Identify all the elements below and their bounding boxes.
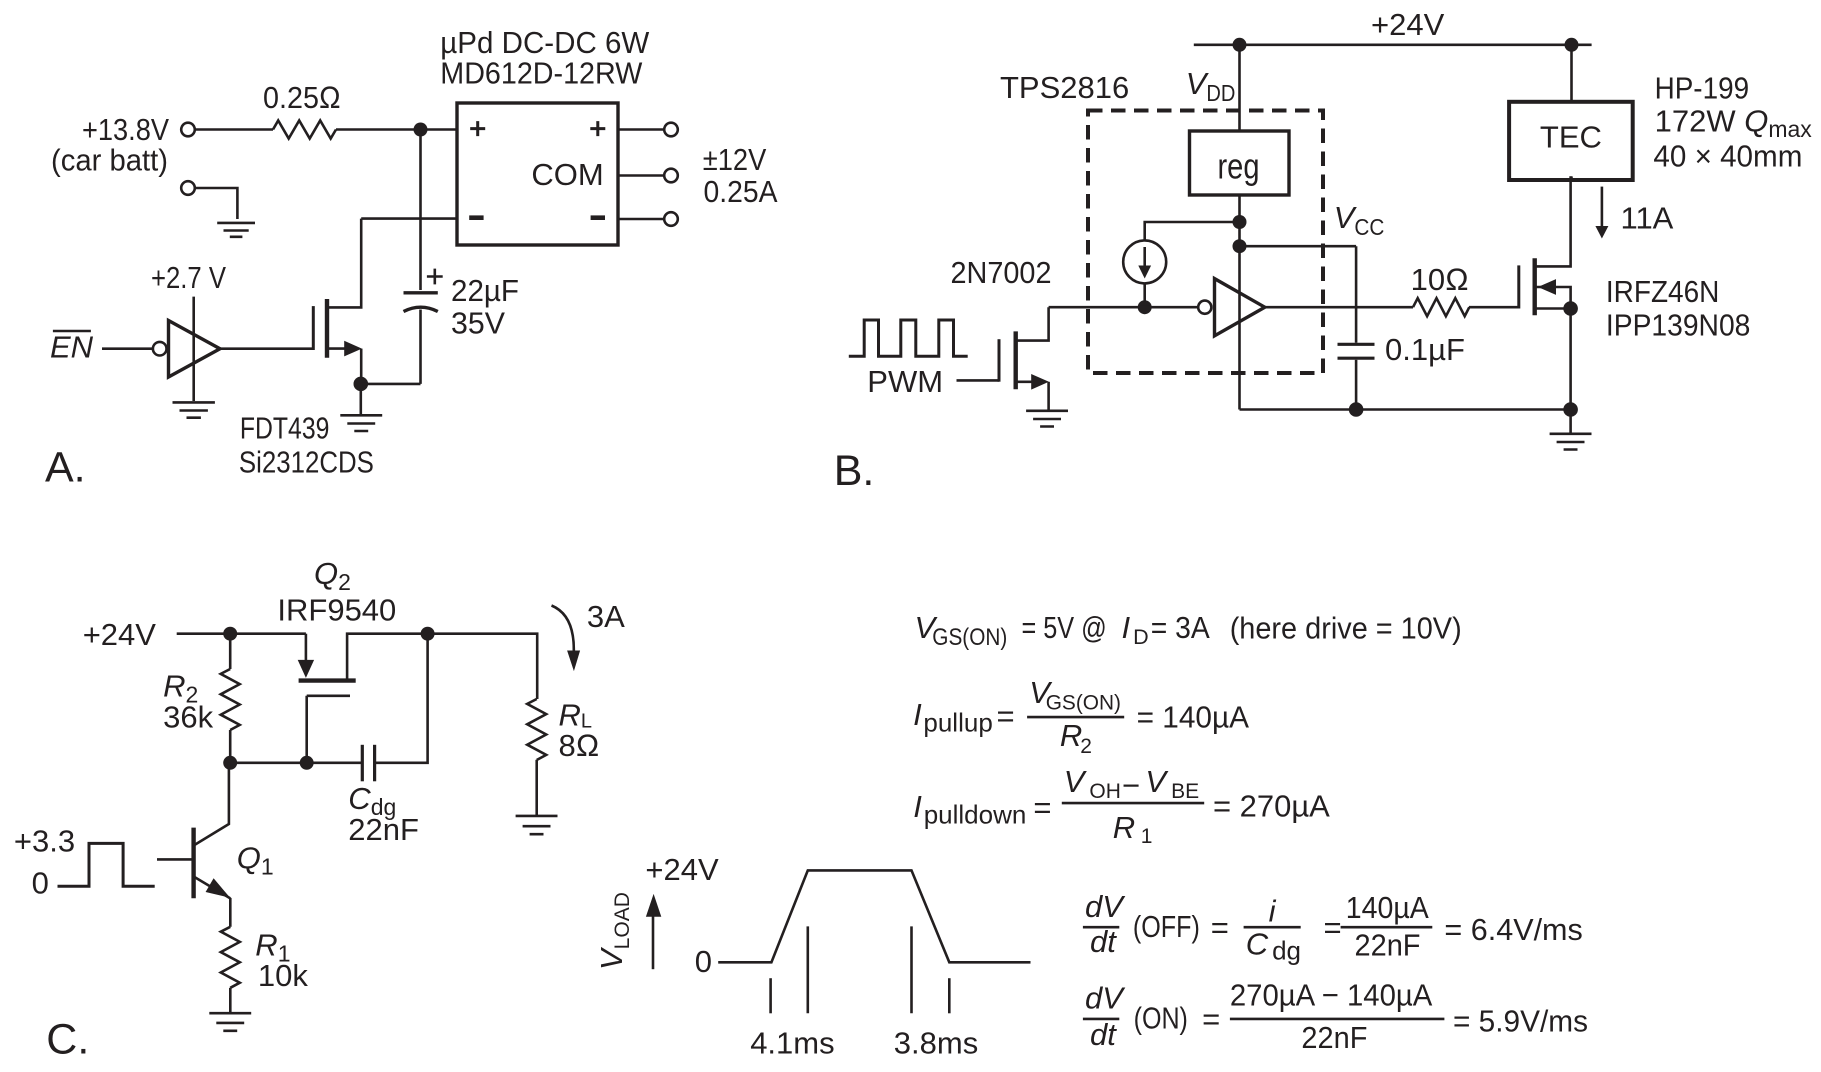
svg-text:3.8ms: 3.8ms	[894, 1025, 978, 1060]
svg-text:36k: 36k	[163, 700, 213, 735]
arrow 11A	[1601, 187, 1604, 228]
node input	[1138, 300, 1152, 314]
node output top	[421, 627, 435, 641]
resistor R1	[221, 927, 240, 988]
reg box	[1190, 131, 1290, 195]
wire VDD down to reg	[1238, 45, 1241, 132]
svg-text:11A: 11A	[1621, 201, 1674, 236]
wire bottom rail	[1240, 408, 1571, 411]
capacitor Cdg	[361, 745, 364, 782]
svg-text:B.: B.	[834, 447, 875, 495]
svg-text:IPP139N08: IPP139N08	[1606, 307, 1751, 342]
node gate	[300, 756, 314, 770]
wire emitter to R1	[229, 898, 232, 927]
2N7002 source to ground	[1047, 382, 1050, 411]
capacitor C 22uF plates	[404, 291, 438, 294]
svg-text:+24V: +24V	[645, 852, 719, 887]
wire PWM to gate	[957, 379, 1000, 382]
resistor R2	[229, 634, 232, 669]
svg-text:0.1µF: 0.1µF	[1385, 332, 1465, 367]
tick 4	[948, 978, 951, 1013]
Q1 collector	[194, 763, 229, 846]
svg-text:140µA: 140µA	[1346, 890, 1429, 925]
svg-text:0.25A: 0.25A	[704, 174, 778, 209]
node bottom cap	[1349, 402, 1364, 417]
svg-text:22µF: 22µF	[451, 273, 519, 308]
transistor IRFZ46N gate bar	[1517, 265, 1520, 308]
terminal out top	[664, 123, 678, 137]
terminal car batt minus	[181, 181, 195, 195]
wire rail to TEC	[1570, 45, 1573, 102]
svg-text:10Ω: 10Ω	[1411, 262, 1469, 297]
node bottom right	[1563, 402, 1578, 417]
svg-text:=: =	[1202, 1002, 1220, 1037]
wire output pin bottom	[618, 218, 664, 221]
svg-text:dt: dt	[1090, 924, 1117, 959]
svg-text:= 6.4V/ms: = 6.4V/ms	[1444, 912, 1582, 947]
node source	[1563, 301, 1578, 316]
ground R1	[209, 1013, 251, 1031]
wire node to current source top	[1145, 222, 1240, 242]
wire resistor to DC-DC	[336, 128, 457, 131]
IRFZ46N body arrow	[1535, 287, 1571, 309]
wire input line	[1049, 306, 1198, 309]
waveform +3.3 pulse	[58, 843, 155, 886]
wire input to resistor	[195, 128, 273, 131]
svg-text:+3.3: +3.3	[14, 824, 75, 859]
Q1 base lead	[157, 858, 194, 861]
svg-text:= 140µA: = 140µA	[1137, 700, 1250, 735]
svg-text:35V: 35V	[451, 306, 505, 341]
svg-text:8Ω: 8Ω	[559, 728, 600, 763]
svg-text:(ON): (ON)	[1134, 1001, 1188, 1036]
tick 3	[910, 926, 913, 1013]
svg-text:HP-199: HP-199	[1655, 71, 1750, 106]
node junction at cap top	[414, 123, 428, 137]
FDT439 channel bar	[325, 299, 329, 358]
terminal out mid	[664, 169, 678, 183]
svg-text:22nF: 22nF	[1355, 927, 1421, 962]
svg-text:A.: A.	[45, 444, 86, 492]
svg-text:=: =	[1211, 910, 1229, 945]
Q2 gate plate	[307, 694, 350, 697]
ground B right	[1569, 410, 1572, 434]
2N7002 source stub + arrow	[1016, 380, 1033, 383]
node rail left	[1233, 38, 1247, 52]
transistor Q2 source lead + arrow	[305, 634, 308, 662]
FDT439 drain stub	[327, 219, 361, 308]
TEC box	[1509, 102, 1633, 180]
dashed box TPS2816	[1088, 111, 1323, 374]
svg-text:(car batt): (car batt)	[51, 143, 168, 178]
wire source to cap bottom	[361, 383, 421, 386]
inverter U1	[153, 342, 167, 356]
wire Vcc to cap	[1355, 246, 1358, 343]
buffer U2 triangle	[1215, 279, 1265, 336]
ground RL	[516, 816, 558, 834]
FDT439 source stub + arrow	[327, 347, 346, 350]
axis arrow	[652, 914, 655, 969]
wire output pin mid	[618, 174, 664, 177]
ground FDT439	[340, 415, 382, 431]
wire EN input	[102, 347, 153, 350]
pin - left	[469, 215, 483, 220]
cap polarity plus	[427, 269, 443, 285]
svg-text:TPS2816: TPS2816	[1000, 70, 1129, 105]
svg-text:0: 0	[695, 944, 712, 979]
tick 1	[769, 978, 772, 1013]
transistor 2N7002 gate bar	[998, 339, 1001, 382]
transistor Q1 base bar	[191, 828, 195, 899]
node gate line left	[223, 756, 237, 770]
ground car batt	[217, 223, 255, 237]
transistor Q FDT439 gate bar	[312, 306, 315, 350]
svg-text:0.25Ω: 0.25Ω	[263, 80, 341, 115]
wire batt minus	[195, 188, 237, 219]
wire current source to input node	[1143, 283, 1146, 307]
pin + left	[470, 121, 485, 136]
wire Vcc from node	[1240, 245, 1357, 248]
resistor RL	[527, 699, 546, 760]
svg-text:dV: dV	[1085, 981, 1126, 1016]
svg-text:+2.7 V: +2.7 V	[151, 260, 226, 295]
node Vcc	[1233, 239, 1247, 253]
svg-text:=: =	[1324, 910, 1342, 945]
svg-text:22nF: 22nF	[1301, 1020, 1367, 1055]
svg-text:= 270µA: = 270µA	[1213, 789, 1330, 824]
wire cap to output node	[375, 634, 428, 763]
svg-text:IRF9540: IRF9540	[277, 593, 396, 628]
svg-text:reg: reg	[1218, 146, 1260, 187]
svg-text:IRFZ46N: IRFZ46N	[1606, 274, 1720, 309]
svg-text:EN: EN	[50, 330, 94, 365]
resistor 10ohm	[1413, 298, 1469, 316]
wire output to RL corner	[428, 634, 538, 699]
wire gate node line	[230, 761, 362, 764]
wire TEC to drain	[1570, 176, 1573, 180]
wire minus pin to mosfet drain	[361, 217, 457, 220]
svg-text:TEC: TEC	[1540, 119, 1602, 154]
wire resistor to gate	[1469, 306, 1519, 309]
svg-text:COM: COM	[531, 157, 603, 192]
svg-text:10k: 10k	[258, 958, 308, 993]
wire buffer power down	[1238, 246, 1241, 409]
buffer U2 bubble	[1198, 301, 1211, 314]
svg-text:±12V: ±12V	[703, 142, 767, 177]
svg-text:+24V: +24V	[83, 617, 157, 652]
svg-text:dV: dV	[1085, 889, 1126, 924]
svg-text:MD612D-12RW: MD612D-12RW	[440, 56, 643, 91]
terminal +13.8V	[181, 123, 195, 137]
svg-text:40 × 40mm: 40 × 40mm	[1653, 138, 1802, 173]
capacitor wire bottom	[419, 310, 422, 384]
svg-text:= 5.9V/ms: = 5.9V/ms	[1453, 1004, 1588, 1039]
svg-text:0: 0	[32, 865, 49, 900]
pin + right	[590, 121, 605, 136]
waveform VLOAD trapezoid	[718, 870, 1030, 962]
wire output pin top	[618, 128, 664, 131]
wire +24V to Q2 source	[177, 632, 306, 635]
IRFZ46N source stub	[1535, 307, 1571, 310]
node source junction	[354, 377, 369, 392]
resistor 0.25ohm	[273, 121, 336, 139]
svg-text:4.1ms: 4.1ms	[750, 1025, 834, 1060]
ground inverter	[173, 402, 215, 417]
svg-text:Si2312CDS: Si2312CDS	[239, 444, 374, 479]
current source I1	[1123, 240, 1166, 283]
node rail right	[1565, 38, 1579, 52]
waveform PWM	[849, 320, 968, 356]
svg-text:270µA − 140µA: 270µA − 140µA	[1230, 978, 1433, 1013]
svg-text:dt: dt	[1090, 1017, 1117, 1052]
svg-text:2N7002: 2N7002	[951, 255, 1052, 290]
capacitor C 22uF wire top	[419, 130, 422, 291]
node below reg	[1233, 215, 1247, 229]
svg-text:+24V: +24V	[1371, 7, 1445, 42]
capacitor 0.1uF	[1338, 343, 1375, 346]
DC-DC module box	[457, 103, 618, 245]
IRFZ46N drain stub	[1535, 176, 1571, 266]
IRFZ46N channel bar	[1532, 258, 1536, 315]
svg-text:3A: 3A	[587, 599, 625, 634]
wire source to bottom rail	[1569, 309, 1572, 410]
Q2 gate lead down	[305, 696, 308, 763]
wire buffer out to resistor	[1265, 306, 1413, 309]
Q1 emitter	[194, 877, 231, 899]
node R2 top	[223, 627, 237, 641]
svg-text:C.: C.	[46, 1015, 89, 1063]
wire source to ground	[359, 384, 362, 415]
inverter power line	[192, 297, 195, 401]
arrow 3A	[552, 606, 574, 652]
Q2 channel bar	[299, 678, 356, 682]
2N7002 channel bar	[1014, 331, 1018, 389]
tick 2	[806, 926, 809, 1013]
pin - right	[591, 215, 605, 220]
2N7002 drain stub	[1016, 307, 1049, 340]
FDT439 source down wire	[360, 349, 363, 384]
ground 2N7002	[1026, 411, 1068, 427]
wire inverter to gate	[220, 347, 313, 350]
svg-text:22nF: 22nF	[348, 812, 419, 847]
svg-text:PWM: PWM	[867, 364, 943, 399]
wire +24V rail	[1194, 43, 1592, 46]
Q2 drain lead	[347, 634, 428, 679]
svg-text:i: i	[1269, 893, 1277, 928]
svg-text:FDT439: FDT439	[240, 410, 330, 445]
svg-text:(OFF): (OFF)	[1133, 909, 1200, 944]
wire reg to nodes	[1238, 195, 1241, 246]
terminal out bottom	[664, 212, 678, 226]
